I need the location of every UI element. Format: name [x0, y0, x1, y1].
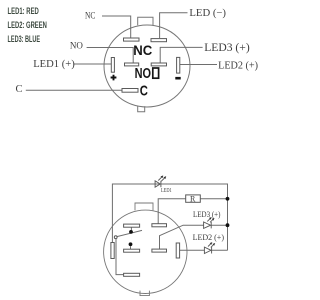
svg-text:NC: NC — [85, 10, 96, 21]
svg-text:NO: NO — [70, 40, 83, 50]
svg-text:C: C — [140, 82, 149, 99]
svg-text:LED1: LED1 — [161, 187, 172, 194]
svg-text:NC: NC — [133, 43, 152, 58]
svg-text:LED3 (+): LED3 (+) — [204, 41, 250, 54]
svg-text:LED3: BLUE: LED3: BLUE — [8, 34, 41, 45]
svg-text:NO: NO — [135, 64, 151, 81]
svg-text:LED (−): LED (−) — [189, 7, 226, 19]
svg-text:LED2 (+): LED2 (+) — [218, 61, 258, 72]
svg-text:C: C — [16, 84, 23, 95]
svg-text:LED2: GREEN: LED2: GREEN — [8, 20, 47, 31]
svg-text:LED3 (+): LED3 (+) — [193, 209, 221, 219]
svg-text:LED1 (+): LED1 (+) — [33, 59, 75, 70]
svg-text:LED2 (+): LED2 (+) — [193, 233, 225, 242]
svg-text:R: R — [190, 195, 196, 204]
svg-text:LED1: RED: LED1: RED — [8, 6, 40, 17]
